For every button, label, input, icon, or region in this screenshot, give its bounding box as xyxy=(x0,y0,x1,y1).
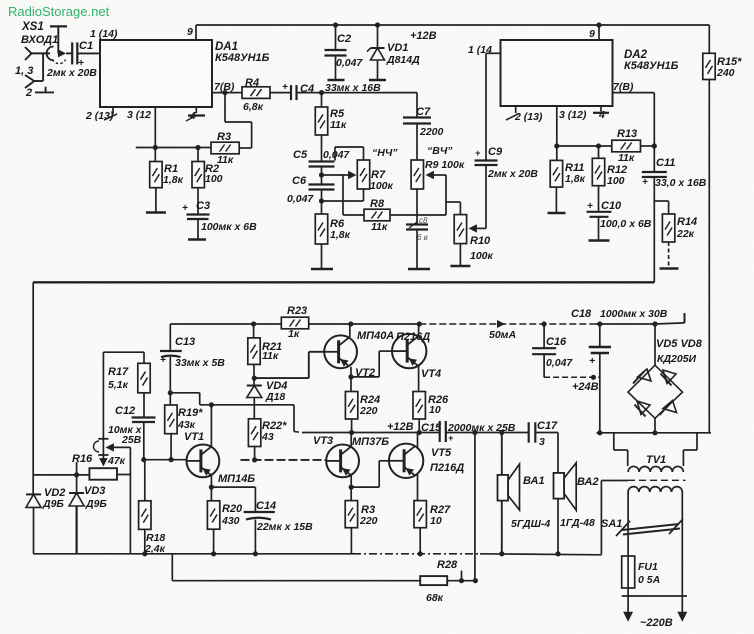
pot R7 top connection xyxy=(363,147,365,160)
resistor R19 xyxy=(169,393,171,405)
pot R16 wiper line from R17 xyxy=(102,352,104,461)
capacitor C16 xyxy=(543,324,545,348)
wire DA2 feedback node y146 xyxy=(557,145,612,147)
right supply rail down to bridge line xyxy=(708,80,710,433)
transistor VT2 xyxy=(324,335,357,368)
capacitor C4 xyxy=(290,85,292,100)
left border wire of output section xyxy=(32,282,34,494)
dashed +24V line xyxy=(544,376,600,378)
wire speaker return corner to transformer tap xyxy=(600,481,602,555)
crossing hop arc xyxy=(94,441,100,452)
loudspeaker BA1 xyxy=(501,433,503,476)
wire VT2 base from R21-VD4 junction xyxy=(254,377,308,379)
connector tick marks on wiper line xyxy=(98,438,108,440)
wire C17 to BA2 xyxy=(535,432,558,434)
wire pin3 up to pin1 xyxy=(34,80,43,82)
connector XS1 shield top bar and stem xyxy=(50,25,67,27)
resistor R25 (marked R3) xyxy=(345,501,357,528)
fuse FU1 xyxy=(627,522,629,556)
ground under R14 xyxy=(668,242,670,269)
bridge diode D-bottom-right xyxy=(663,401,677,413)
switch SA1 right lead down xyxy=(681,528,683,596)
resistor R1 xyxy=(154,148,156,162)
resistor R23 in rail xyxy=(281,317,308,329)
DA2 pin 9 wire xyxy=(598,25,600,40)
VT1 collector wire up to bootstrap line xyxy=(210,405,212,447)
VT1 emitter wire xyxy=(210,475,212,501)
resistor R3 xyxy=(211,142,239,154)
TV1 secondary lead left xyxy=(613,433,615,450)
capacitor C15 xyxy=(439,421,441,442)
ground under C8 xyxy=(416,230,418,270)
VT3 collector wire xyxy=(350,433,352,447)
wire C16 to +24V dashed line xyxy=(543,354,545,377)
transistor VT4 xyxy=(392,334,426,368)
wire C12 to VT1 base node xyxy=(143,422,145,460)
op-amp DA2 box xyxy=(501,40,613,106)
capacitor C11 xyxy=(642,171,667,173)
wire C11 bottom to section line xyxy=(653,177,655,282)
resistor R24 xyxy=(345,392,357,420)
ground bar under VD1 xyxy=(369,79,386,82)
resistor R17 xyxy=(103,351,144,353)
ground under R6 xyxy=(321,244,323,269)
resistor R22 xyxy=(248,419,260,447)
DA1 pin 4 stub with ground tick xyxy=(195,107,197,113)
capacitor C2 xyxy=(335,25,337,50)
resistor R27 xyxy=(414,501,426,528)
ground under C3 xyxy=(197,219,199,240)
bootstrap wire C13 junction stepped to mid rail xyxy=(170,392,199,394)
resistor R21 xyxy=(253,324,255,338)
wire DA1 pin7 to R4 xyxy=(212,92,242,94)
connector female contact arc xyxy=(47,47,54,61)
wire connector to C1 xyxy=(66,52,72,54)
wire C5-C6 midpoint to R7 wiper xyxy=(319,172,324,177)
diode VD2 xyxy=(26,493,41,495)
pot R10 xyxy=(454,215,466,244)
wire jog to R14 xyxy=(654,200,668,202)
resistor R20 xyxy=(207,501,219,529)
supply return line xyxy=(597,432,712,434)
resistor R4 xyxy=(242,87,270,99)
R28 feedback line xyxy=(172,580,420,582)
resistor R8 xyxy=(364,209,390,221)
TV1 primary winding xyxy=(628,487,639,492)
DA1 pin 2 stub xyxy=(112,107,114,114)
wire VT4 base from VT2 emitter xyxy=(351,376,379,378)
DA2 pin 3 wire xyxy=(556,106,558,146)
wire C14 to bottom rail xyxy=(254,520,256,554)
diode VD3 xyxy=(76,475,78,493)
wire R9 wiper to R10 top xyxy=(446,201,460,203)
mains arrows ~220V xyxy=(627,596,629,614)
wire bias node y147.5 xyxy=(136,147,211,149)
capacitor C3 xyxy=(197,188,199,214)
capacitor C8 xyxy=(416,189,418,224)
TV1 secondary lead right xyxy=(696,433,698,450)
top supply rail y25 xyxy=(196,24,709,26)
wire DA2 pin7 to C11 column xyxy=(613,92,655,94)
bridge diode D-top-left xyxy=(638,369,652,381)
resistor R2 xyxy=(197,148,199,162)
VT5 collector wire to output node xyxy=(417,433,419,448)
pot R16 xyxy=(89,468,117,480)
amp top rail y323 xyxy=(170,323,419,325)
VT3 base wire from R22 node xyxy=(241,459,327,461)
wire C4 node to C7 corner xyxy=(270,92,291,94)
wire left border through VD2 to rail xyxy=(32,493,34,495)
wire wiper node down to R8 xyxy=(342,175,344,215)
wire R25 to bottom rail xyxy=(350,528,352,554)
VT4 collector wire xyxy=(418,324,420,337)
pot R7 xyxy=(357,160,369,189)
wire VT5 base from VT3 emitter xyxy=(351,486,379,488)
VT5 emitter wire to R27 xyxy=(417,475,419,501)
resistor R18 xyxy=(144,460,146,501)
wire R16 right terminal xyxy=(117,474,130,476)
wire VT1 emitter to C14 xyxy=(211,486,255,488)
transistor VT5 xyxy=(389,444,423,478)
op-amp DA1 box xyxy=(100,40,212,107)
capacitor C14 xyxy=(254,487,256,511)
wire R21 to VD4 xyxy=(253,364,255,385)
wire XS1 pin1 to connector xyxy=(32,52,51,54)
wire XS1 pin2 stub xyxy=(35,91,54,93)
detachable contact arrow on R16 branch wire xyxy=(106,443,114,451)
bridge diode D-top-right xyxy=(663,370,676,384)
resistor R15 xyxy=(708,25,710,53)
capacitor C10 xyxy=(598,186,600,211)
wire R28 right xyxy=(447,580,475,582)
mains terminal bar xyxy=(622,595,687,597)
bridge top corner wire xyxy=(654,324,656,365)
capacitor C13 xyxy=(169,324,171,351)
transistor VT1 xyxy=(187,445,220,478)
rail end terminal bar xyxy=(684,313,686,323)
capacitor C6 xyxy=(321,167,323,185)
TV1 primary leads xyxy=(627,492,629,522)
DA2 pin 4 stub with tick xyxy=(600,106,602,112)
R28 wiper stub xyxy=(461,571,463,581)
capacitor C5 xyxy=(321,135,323,161)
pot R9 wiper arrow xyxy=(426,171,434,179)
DA2 pin 2 stub xyxy=(515,106,517,113)
wire R26 bottom to mid rail xyxy=(418,419,420,433)
wire VT1 base line xyxy=(144,459,187,461)
ground under R1 xyxy=(155,188,157,213)
pot R9 xyxy=(416,124,418,161)
connector XS1 pin 1 contact xyxy=(25,47,32,60)
resistor R26 xyxy=(413,392,425,420)
label 50mA with arrow xyxy=(497,320,505,328)
zener diode VD1 xyxy=(377,25,379,48)
VT4 emitter wire to R26 xyxy=(418,365,420,391)
wire C13 bottom to junction xyxy=(169,357,171,393)
ground under R10 xyxy=(459,244,461,266)
connector male pin arrow xyxy=(58,49,66,57)
connector XS1 pin 3 contact xyxy=(25,75,34,88)
feedback wire pin7 junction down to R3 xyxy=(224,93,226,122)
capacitor C9 xyxy=(485,166,487,229)
wire C9 to DA2 pin1 xyxy=(485,53,487,160)
resistor R11 xyxy=(556,146,558,160)
wire R16 left terminal xyxy=(33,474,89,476)
resistor R5 xyxy=(321,93,323,107)
resistor R13 xyxy=(612,140,641,152)
pot R10 wiper arrow xyxy=(469,224,477,232)
wire R19 to base line xyxy=(170,434,172,460)
wiper arrow onto R16 xyxy=(99,458,107,466)
speaker feed wire after C15 xyxy=(446,432,529,434)
VT2 collector wire xyxy=(349,324,351,337)
capacitor C12 xyxy=(143,393,145,417)
wire bottom rail to R28 line xyxy=(171,554,173,581)
TV1 secondary winding xyxy=(628,466,639,472)
resistor R12 xyxy=(598,146,600,158)
wire VD4 to R22 xyxy=(253,398,255,419)
trimmer R7 wiper arrow xyxy=(348,171,356,179)
wire output column to R28 xyxy=(474,433,476,581)
wire R8 right to R9 wiper column xyxy=(390,214,446,216)
wire R22 to VT3 base line xyxy=(254,447,256,460)
ground bar under C2 xyxy=(335,56,337,81)
ground under C10 xyxy=(598,217,600,241)
capacitor C1 xyxy=(71,42,73,64)
resistor R14 xyxy=(668,201,670,214)
wire C18 bottom to return line xyxy=(599,353,601,433)
TV1 core dashes xyxy=(628,479,686,481)
ground under R11 xyxy=(555,187,557,213)
DA1 pin 9 wire to top rail xyxy=(195,25,197,40)
amp bottom rail xyxy=(33,553,353,555)
stub above VD3 xyxy=(76,462,78,475)
bridge diode D-bottom-left xyxy=(637,401,650,415)
mid +12V rail xyxy=(302,432,440,434)
wire R20 to bottom rail xyxy=(213,529,215,554)
VT3 emitter wire xyxy=(350,475,352,500)
transistor VT3 xyxy=(326,445,359,478)
bridge diamond xyxy=(628,365,683,418)
wire R24 bottom to mid rail xyxy=(351,419,353,433)
capacitor C18 xyxy=(599,324,601,347)
bridge bottom corner wire xyxy=(654,418,656,433)
loudspeaker BA2 xyxy=(554,473,565,499)
wire R27 to bottom rail xyxy=(419,528,421,554)
resistor R6 xyxy=(315,214,327,244)
pot R7 bottom connection xyxy=(363,189,365,201)
diode VD4 xyxy=(247,385,262,387)
wire R18 to bottom rail xyxy=(144,529,146,553)
wire R16 branch down to bottom rail xyxy=(129,447,131,553)
capacitor C17 xyxy=(528,422,530,442)
capacitor C7 xyxy=(416,93,418,117)
section divider line xyxy=(33,281,654,283)
DA1 pin 3 wire xyxy=(154,107,156,148)
resistor R28 xyxy=(420,576,447,585)
connector dashed bottom arc xyxy=(53,60,66,64)
VT2 emitter wire xyxy=(350,367,352,392)
